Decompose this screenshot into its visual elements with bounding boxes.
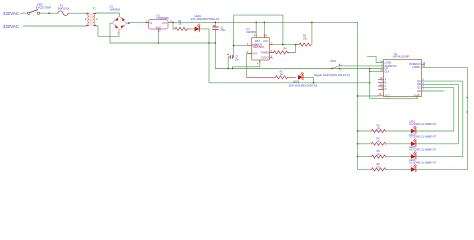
svg-text:VCC: VCC xyxy=(385,94,390,97)
U3 GND pin 8 wire xyxy=(416,97,418,99)
junction xyxy=(158,42,160,44)
wire switch to fuse xyxy=(44,12,56,14)
svg-text:14: 14 xyxy=(380,69,383,72)
capacitor C2 xyxy=(227,54,233,59)
wire fuse to transformer xyxy=(70,12,87,14)
wire bridge left to gnd rail xyxy=(110,23,113,43)
LED row 2 xyxy=(357,133,458,146)
svg-text:HD74LS190P: HD74LS190P xyxy=(393,55,410,59)
svg-text:10k: 10k xyxy=(303,37,308,40)
U3 pin 11 LOAD wire xyxy=(367,56,383,62)
LED row 1 xyxy=(357,121,454,134)
resistor R3 (VCC to DISCH) xyxy=(296,43,312,46)
555 GND pin 1 wire xyxy=(233,61,260,69)
+5V bus down right side xyxy=(358,22,372,169)
U3 QA wire xyxy=(422,81,463,157)
svg-text:2: 2 xyxy=(159,31,161,33)
bridge rectifier D1 xyxy=(113,16,127,30)
+5V rail xyxy=(169,21,358,23)
svg-text:QD: QD xyxy=(417,90,421,93)
resistor R2 (OUT to LED2) xyxy=(247,76,296,79)
svg-text:2W005G: 2W005G xyxy=(110,8,121,12)
LED row 4 xyxy=(372,159,468,172)
wire gnd rail drop to lower gnd xyxy=(215,43,383,69)
wire bridge out to regulator xyxy=(126,22,148,25)
switch SW2 xyxy=(24,10,45,15)
svg-text:8: 8 xyxy=(265,34,267,37)
U3 QD wire xyxy=(422,90,444,92)
wire live in xyxy=(21,12,28,14)
svg-text:220VAC: 220VAC xyxy=(3,11,19,16)
gnd drop to counter xyxy=(370,69,417,99)
svg-text:10-2178NC-ZL-N&BRY/GT: 10-2178NC-ZL-N&BRY/GT xyxy=(409,137,437,139)
wire R1 to LED1 xyxy=(189,28,194,30)
resistor R3a xyxy=(372,129,387,132)
svg-text:NE555P: NE555P xyxy=(246,30,256,34)
junction xyxy=(208,42,210,44)
svg-text:5MF/0.5A: 5MF/0.5A xyxy=(58,6,70,10)
svg-text:L7805ABV: L7805ABV xyxy=(156,16,169,20)
LED1 xyxy=(195,24,201,32)
LED2 xyxy=(298,72,304,80)
U3 CARRY pin 12 wire xyxy=(422,67,468,169)
svg-text:OUT: OUT xyxy=(252,52,258,55)
svg-text:470u: 470u xyxy=(220,29,226,32)
svg-text:1k: 1k xyxy=(280,73,283,76)
svg-text:1: 1 xyxy=(257,62,259,65)
svg-text:10-2178NC-ZL-N&BRY/GT: 10-2178NC-ZL-N&BRY/GT xyxy=(409,162,437,164)
555 CVOLT pin 5 stub xyxy=(270,57,273,59)
wire LED2 to gnd return xyxy=(303,77,314,83)
junction xyxy=(48,12,50,14)
svg-text:10-2178NC-ZL-N&BRY/GT: 10-2178NC-ZL-N&BRY/GT xyxy=(409,124,437,126)
svg-text:Toggle Switch(SW 10F14 G): Toggle Switch(SW 10F14 G) xyxy=(314,73,351,77)
svg-text:RST: RST xyxy=(255,40,260,43)
svg-text:3: 3 xyxy=(340,70,342,72)
wire secondary top to bridge xyxy=(95,13,119,16)
svg-text:1k: 1k xyxy=(179,23,182,26)
wire LED1 to gnd xyxy=(200,29,209,43)
svg-text:OUT: OUT xyxy=(162,22,168,25)
wire TRIG over-the-top net xyxy=(234,15,283,57)
svg-text:220VAC: 220VAC xyxy=(3,24,19,29)
555 pin 8 wire xyxy=(263,22,265,37)
counter U3 xyxy=(384,52,422,98)
net marker dots xyxy=(467,97,468,98)
svg-text:VCC: VCC xyxy=(263,40,268,43)
svg-text:EVQ22705R: EVQ22705R xyxy=(36,5,51,9)
wire neutral to transformer xyxy=(23,25,86,27)
svg-text:4: 4 xyxy=(254,34,256,37)
regulator pin stubs xyxy=(146,22,171,31)
ground rail xyxy=(110,42,215,44)
U3 VCC pin 16 wire from +5V bus xyxy=(358,95,379,97)
resistor R4 (THRES to DISCH) xyxy=(274,51,296,54)
svg-text:CLK: CLK xyxy=(385,71,390,74)
svg-text:THRES: THRES xyxy=(261,51,270,54)
U3 QB wire xyxy=(422,84,459,143)
555 pin stubs xyxy=(249,34,273,63)
CLK line xyxy=(370,70,384,72)
svg-text:22n: 22n xyxy=(235,58,240,61)
svg-text:CARRY: CARRY xyxy=(412,66,421,69)
svg-text:CVOLT: CVOLT xyxy=(261,57,269,60)
U3 BORROW pin 13 stub xyxy=(422,63,425,65)
wire regulator GND to rail xyxy=(157,29,159,43)
lower ground return line xyxy=(209,43,370,83)
555 TRIG pin 2 wire xyxy=(234,44,251,46)
svg-text:10-2178NC-ZL-N&BRY/GT: 10-2178NC-ZL-N&BRY/GT xyxy=(409,150,437,152)
LED3 xyxy=(411,129,416,134)
555 OUT pin 3 wire xyxy=(247,54,251,78)
svg-text:204-10SURD/S530-A3: 204-10SURD/S530-A3 xyxy=(191,17,220,21)
svg-text:IN: IN xyxy=(150,22,153,25)
svg-text:SW1: SW1 xyxy=(330,59,336,63)
transformer T1 xyxy=(85,13,97,26)
555 THRES pin 6 wire xyxy=(270,51,274,53)
regulator U2 xyxy=(146,20,173,33)
U3 QC wire xyxy=(422,88,454,131)
wire secondary bottom to bridge xyxy=(96,26,119,36)
555 timer U1 xyxy=(246,27,269,60)
555 DISCH pin 7 wire xyxy=(270,44,296,46)
555 pin 4 wire xyxy=(255,22,257,37)
capacitor C1 xyxy=(213,22,219,43)
svg-text:D: D xyxy=(385,88,387,91)
pin dot bridge right xyxy=(128,22,130,24)
toggle switch SW1 xyxy=(339,65,383,67)
fuse F1 xyxy=(57,11,70,16)
svg-text:T1: T1 xyxy=(93,7,97,11)
resistor R1 xyxy=(172,22,174,29)
svg-text:204-10SURD/S530-A3: 204-10SURD/S530-A3 xyxy=(289,83,318,87)
U3 data pin stubs A-D xyxy=(378,79,383,89)
LED row 3 xyxy=(357,146,463,159)
svg-text:DISCH: DISCH xyxy=(255,44,263,47)
svg-text:R4: R4 xyxy=(283,47,287,50)
